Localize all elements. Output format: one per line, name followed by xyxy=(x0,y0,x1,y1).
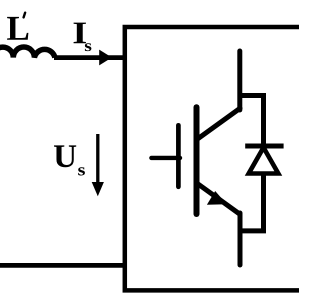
wire emitter branch from diode xyxy=(238,228,267,233)
label L glyph xyxy=(7,17,28,40)
wire emitter vertical xyxy=(238,213,243,265)
Q1 body bar xyxy=(194,107,200,214)
Q1 collector diagonal xyxy=(198,108,241,139)
label Us xyxy=(54,145,76,167)
wire collector branch to diode xyxy=(240,96,264,147)
label Is xyxy=(74,23,86,44)
diode D1 triangle xyxy=(249,148,279,174)
prime mark of L xyxy=(24,13,26,18)
Q1 gate bar xyxy=(176,125,181,187)
current arrow Is xyxy=(99,50,112,66)
wire top (inductor to box) xyxy=(54,55,127,60)
Q1 emitter diagonal xyxy=(198,184,241,215)
voltage arrow Us xyxy=(96,134,99,184)
Q1 emitter arrow xyxy=(207,191,227,205)
wire collector vertical xyxy=(237,51,242,110)
transistor Q1 (IGBT) gate lead xyxy=(151,156,180,160)
converter box xyxy=(125,27,312,290)
diode D1 anode lead xyxy=(261,174,266,234)
diode D1 cathode bar xyxy=(245,144,283,149)
wire bottom (left edge to box) xyxy=(0,263,127,268)
inductor L' xyxy=(0,47,55,58)
